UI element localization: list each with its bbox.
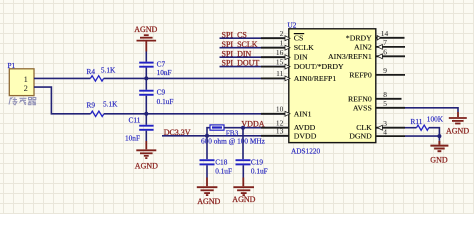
capacitor C7 — [139, 63, 153, 67]
svg-text:DOUT/*DRDY: DOUT/*DRDY — [294, 62, 344, 71]
power port AGND top — [134, 25, 157, 52]
wire junction to GND symbol — [438, 136, 440, 141]
pin 15 DOUT/*DRDY — [261, 57, 344, 71]
svg-text:15: 15 — [276, 57, 284, 66]
svg-text:AGND: AGND — [197, 197, 220, 206]
pin 7 AIN2 — [354, 38, 405, 51]
wire C11 to AGND — [145, 131, 147, 141]
power port AGND right — [446, 112, 469, 136]
pin 3 CLK — [356, 119, 405, 132]
svg-text:100K: 100K — [427, 115, 444, 124]
svg-text:C18: C18 — [215, 157, 228, 166]
svg-text:C11: C11 — [129, 115, 141, 124]
svg-text:ADS1220: ADS1220 — [291, 146, 321, 155]
svg-text:P1: P1 — [8, 61, 16, 70]
wire branch up to FB3 — [207, 128, 210, 136]
svg-text:0.1uF: 0.1uF — [215, 166, 232, 175]
svg-text:AGND: AGND — [446, 127, 469, 136]
svg-text:11: 11 — [276, 69, 283, 78]
svg-text:SCLK: SCLK — [294, 43, 314, 52]
ferrite bead FB3 — [210, 125, 224, 130]
wire R9 to IC pin 10 (AIN1 node) — [104, 113, 289, 115]
capacitor C19 — [236, 160, 251, 164]
svg-text:R4: R4 — [87, 67, 96, 76]
svg-text:CS: CS — [294, 34, 304, 43]
pin 11 AIN0/REFP1 — [261, 69, 336, 83]
svg-text:AGND: AGND — [232, 195, 255, 204]
capacitor C11 — [139, 126, 153, 130]
pin 16 DIN — [261, 48, 308, 62]
svg-text:DGND: DGND — [349, 132, 372, 141]
power port AGND below C11 — [135, 141, 158, 171]
junction node GND — [437, 134, 441, 138]
power port AGND below C18 — [197, 178, 221, 207]
svg-text:2: 2 — [280, 29, 284, 38]
svg-text:REFN0: REFN0 — [348, 94, 372, 103]
power port GND — [430, 141, 448, 165]
pin 4 DGND — [349, 127, 405, 140]
capacitor C9 — [139, 91, 153, 95]
svg-text:AIN1: AIN1 — [294, 109, 312, 118]
svg-text:6: 6 — [383, 48, 387, 57]
svg-text:C9: C9 — [157, 88, 166, 97]
svg-text:10: 10 — [276, 105, 284, 114]
svg-text:600 ohm @ 100 MHz: 600 ohm @ 100 MHz — [201, 137, 266, 146]
resistor R11 — [417, 125, 429, 130]
svg-text:AIN3/REFN1: AIN3/REFN1 — [328, 52, 372, 61]
wire C18 to AGND — [206, 165, 208, 177]
svg-text:DIN: DIN — [294, 53, 308, 62]
pin 2 CS — [261, 29, 304, 43]
svg-text:16: 16 — [276, 48, 284, 57]
resistor R4 — [90, 76, 103, 81]
svg-text:C19: C19 — [251, 157, 264, 166]
wire CLK to R11 — [405, 127, 417, 129]
wire SPI_DIN to pin 16 — [220, 56, 289, 58]
svg-text:8: 8 — [383, 90, 387, 99]
svg-text:0.1uF: 0.1uF — [157, 97, 174, 106]
wire R11 to GND corner — [429, 128, 440, 136]
wire P1 pin2 down-run — [34, 87, 91, 114]
resistor R9 — [91, 111, 104, 116]
wire SPI_SCLK to pin 1 — [220, 47, 289, 49]
svg-text:5.1K: 5.1K — [101, 65, 116, 74]
capacitor C18 — [200, 160, 215, 164]
junction node AIN0 — [144, 76, 148, 80]
svg-text:AVSS: AVSS — [353, 103, 372, 112]
wire P1 pin1 to R4 — [34, 77, 90, 79]
wire C9 to node — [145, 96, 147, 125]
power port AGND below C19 — [232, 178, 255, 205]
pin 9 REFP0 — [349, 66, 405, 79]
pin 1 SCLK — [261, 39, 314, 53]
junction node AIN1 — [144, 112, 148, 116]
wire DC3.3V rail to pin 13 — [162, 135, 289, 137]
svg-text:9: 9 — [383, 66, 387, 75]
svg-text:GND: GND — [430, 155, 448, 164]
wire C18 stem — [206, 136, 208, 159]
svg-text:R9: R9 — [87, 101, 96, 110]
wire C7 to node — [145, 68, 147, 90]
svg-text:*DRDY: *DRDY — [346, 33, 372, 42]
op IC U2 body — [289, 29, 376, 143]
pin 14 *DRDY — [346, 29, 405, 42]
svg-text:AGND: AGND — [134, 25, 157, 34]
wire R4 to IC pin 11 (AIN0 node) — [104, 77, 289, 79]
svg-text:4: 4 — [383, 127, 387, 136]
wire SPI_DOUT to pin 15 — [220, 66, 289, 68]
wire DGND to junction — [405, 135, 439, 137]
connector P1 body — [9, 69, 34, 96]
wire AVSS to AGND — [405, 108, 458, 112]
svg-text:2: 2 — [24, 83, 28, 93]
pin 5 AVSS — [353, 99, 405, 112]
junction node VDDA/C19 — [241, 126, 245, 130]
svg-text:REFP0: REFP0 — [349, 70, 372, 79]
svg-text:0.1uF: 0.1uF — [251, 166, 268, 175]
pin 10 AIN1 — [261, 105, 312, 119]
pin 6 AIN3/REFN1 — [328, 48, 405, 61]
svg-text:1: 1 — [280, 39, 284, 48]
comment 传感器 (sensor) glyphs — [9, 97, 36, 105]
svg-text:10nF: 10nF — [125, 133, 140, 142]
svg-text:U2: U2 — [288, 20, 297, 29]
wire SPI_CS to pin 2 — [220, 37, 289, 39]
svg-text:7: 7 — [383, 38, 387, 47]
wire AGND to C7 — [145, 52, 147, 62]
svg-text:R11: R11 — [411, 117, 423, 126]
wire C19 stem — [242, 128, 244, 160]
svg-text:13: 13 — [276, 127, 284, 136]
svg-text:DVDD: DVDD — [294, 131, 317, 140]
pin 8 REFN0 — [348, 90, 402, 103]
svg-text:5: 5 — [383, 99, 387, 108]
svg-text:10nF: 10nF — [157, 68, 172, 77]
wire FB3 to pin 12 (VDDA) — [224, 127, 289, 129]
pin 12 AVDD — [261, 119, 316, 133]
pin 13 DVDD — [261, 127, 317, 141]
svg-text:AGND: AGND — [135, 162, 158, 171]
svg-text:AIN2: AIN2 — [354, 42, 372, 51]
svg-text:14: 14 — [381, 29, 389, 38]
junction node at FB3/C18 — [205, 134, 209, 138]
svg-text:AIN0/REFP1: AIN0/REFP1 — [294, 74, 337, 83]
svg-text:5.1K: 5.1K — [103, 99, 118, 108]
wire C19 to AGND — [242, 165, 244, 177]
